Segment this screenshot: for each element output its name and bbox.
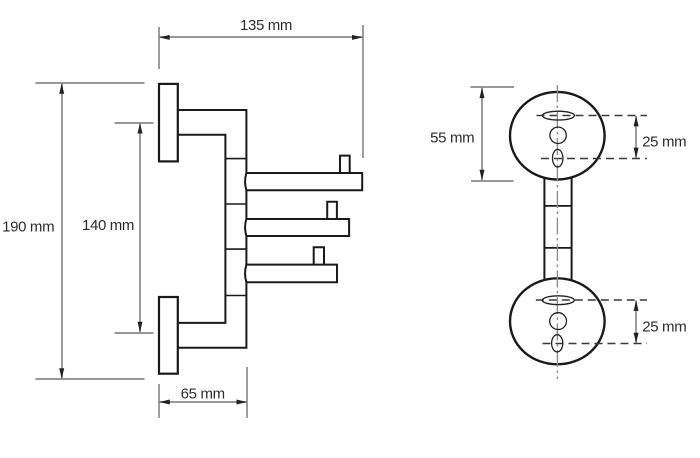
dim 135 dimension line (160, 36, 363, 38)
svg-text:55 mm: 55 mm (430, 129, 474, 146)
bottom screw hole circle (550, 313, 567, 330)
connecting bar right edge (571, 178, 573, 280)
dim 135 left arrow (159, 35, 170, 40)
dim 55 bottom extension line (471, 180, 514, 182)
hook arm 1 peg (340, 156, 350, 173)
dim 25 bottom dimension line (635, 301, 637, 344)
dashed hole line bottom lower (543, 343, 648, 345)
spine joint line 4 (225, 295, 246, 297)
hook arm 2 peg (327, 202, 337, 219)
svg-text:25 mm: 25 mm (642, 134, 686, 151)
svg-text:65 mm: 65 mm (181, 386, 225, 403)
dim 190 dimension line (61, 84, 63, 379)
dim 65 left arrow (159, 400, 170, 405)
dim 190 top extension line (36, 82, 145, 84)
top screw slot (542, 111, 574, 120)
dim 190 down arrow (59, 368, 64, 379)
hook arm 2 body (245, 219, 349, 236)
spine joint line 2 (225, 203, 246, 205)
bottom screw slot (542, 296, 574, 305)
dim 140 down arrow (138, 322, 143, 333)
dashed hole line top slot (537, 115, 648, 117)
top oval hole (553, 149, 563, 167)
dim 190 bottom extension line (36, 378, 145, 380)
dashed hole line bottom slot (536, 299, 647, 301)
bottom oval hole (552, 335, 563, 352)
bottom mounting circle (510, 278, 605, 364)
svg-text:135 mm: 135 mm (240, 17, 292, 34)
spine joint line 3 (225, 248, 246, 250)
bar joint line 1 (544, 205, 571, 207)
dim 25 bottom down arrow (634, 333, 639, 344)
dim 65 right extension line (246, 367, 248, 418)
bottom wall plate (159, 297, 178, 374)
dim 55 up arrow (480, 88, 485, 99)
vertical centerline (556, 85, 558, 379)
spine joint line 1 (225, 158, 246, 160)
dim 25 top up arrow (634, 116, 639, 127)
dim 55 down arrow (480, 170, 485, 181)
dim 65 left extension line (158, 384, 160, 418)
dim 140 dimension line (139, 123, 141, 332)
top wall plate (159, 84, 178, 161)
dim 140 bottom extension line (115, 332, 154, 334)
hook arm 1 body (245, 173, 362, 190)
svg-text:190 mm: 190 mm (2, 218, 54, 235)
top screw hole circle (550, 127, 566, 143)
dim 140 up arrow (138, 123, 143, 134)
upper support arm inner outline / spine left edge (178, 135, 226, 323)
hook arm 3 body (245, 265, 337, 283)
dim 65 right arrow (237, 400, 248, 405)
dim 135 left extension line (158, 27, 160, 69)
dim 190 up arrow (59, 83, 64, 94)
dim 25 top dimension line (635, 116, 637, 158)
dim 140 top extension line (115, 122, 154, 124)
dim 55 top extension line (471, 86, 515, 88)
bar joint line 2 (544, 247, 571, 249)
dim 65 dimension line (160, 401, 247, 403)
connecting bar left edge (543, 178, 545, 280)
svg-text:140 mm: 140 mm (82, 217, 134, 234)
dim 25 bottom up arrow (634, 300, 639, 311)
dim 25 top down arrow (634, 148, 639, 159)
dim 135 right extension line (362, 25, 364, 158)
svg-text:25 mm: 25 mm (642, 319, 686, 336)
dashed hole line top lower (541, 158, 647, 160)
hook arm 3 peg (314, 247, 324, 264)
dim 135 right arrow (352, 35, 363, 40)
upper support arm outer outline (178, 110, 247, 348)
top mounting circle (510, 92, 605, 180)
dim 55 dimension line (481, 88, 483, 181)
